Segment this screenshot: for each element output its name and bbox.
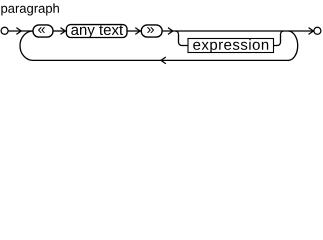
wire: any-text box to right guillemet — [127, 30, 141, 32]
nonterminal box: expression — [188, 39, 274, 53]
label: right guillemet — [147, 27, 154, 33]
terminal pill: right guillemet — [141, 25, 162, 37]
loop wire: left paren curve — [20, 31, 33, 60]
loop wire: right paren curve — [288, 31, 298, 60]
railroad syntax diagram for rule "paragraph" — [0, 0, 323, 67]
loop arrowhead (pointing left) — [161, 57, 166, 64]
wire: branch down into expression — [175, 31, 188, 46]
terminal box: any text — [66, 25, 127, 38]
wire: branch up out of expression — [274, 31, 284, 46]
terminal pill: left guillemet — [33, 25, 53, 37]
arrowhead 5 (before end circle) — [309, 28, 314, 35]
label: any text — [71, 25, 123, 38]
loop wire: bottom line — [33, 59, 288, 61]
wire: pill to any-text box — [53, 30, 66, 32]
wire: start to first terminal — [8, 30, 33, 32]
arrowhead 4 — [168, 28, 173, 35]
arrowhead 1 — [16, 28, 21, 35]
label: expression — [193, 39, 268, 53]
arrowhead 2 — [61, 28, 66, 35]
arrowhead 3 — [135, 28, 140, 35]
title label: paragraph — [1, 3, 59, 15]
start circle — [1, 27, 8, 34]
label: left guillemet — [38, 27, 45, 33]
main wire: bypass over expression to end — [162, 30, 314, 32]
end circle — [314, 27, 321, 34]
